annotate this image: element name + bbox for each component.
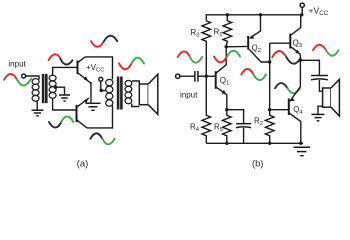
node Q1 emitter (b) <box>225 108 228 111</box>
node rail Q4 (b) <box>299 142 302 145</box>
wire output to C3 <box>300 60 319 75</box>
node Q2 collector / bias bus (b) <box>268 60 271 63</box>
wire emitters junction to ground (a) <box>90 82 92 103</box>
svg-text:input: input <box>180 91 198 100</box>
speaker (a) <box>139 74 158 114</box>
wire bottom rail (a) <box>87 106 113 128</box>
input terminal (a) <box>22 74 26 78</box>
ground emitters (a) <box>86 103 101 110</box>
transformer T2 core <box>117 77 123 110</box>
resistor R1 <box>223 15 232 47</box>
svg-text:(b): (b) <box>252 158 263 168</box>
waveform at Q4 base (b) <box>275 83 300 93</box>
node T2 center tap <box>100 89 103 92</box>
wire top rail (a) <box>85 57 113 80</box>
resistor R4 <box>202 76 211 143</box>
node rail R1 (b) <box>226 13 229 16</box>
bias bus vertical (b) <box>269 43 271 110</box>
node rail R2 (b) <box>268 142 271 145</box>
node output (b) <box>299 59 302 62</box>
wire C1 to base node (b) <box>198 75 206 77</box>
transformer T1 primary coil <box>32 79 39 102</box>
ground T1 center tap (a) <box>59 95 70 101</box>
+VCC terminal (b) <box>300 3 304 15</box>
wire Q1 collector to Q2 base <box>226 45 248 47</box>
resistor R3 <box>202 21 211 76</box>
waveform at driver bus (b) <box>272 51 300 64</box>
svg-text:input: input <box>8 60 26 69</box>
wire T1 secondary bottom to Q-bot base <box>53 98 77 110</box>
wire bus to Q4 base <box>270 109 289 111</box>
waveform black-green at Q-bot base (a) <box>49 116 73 127</box>
bottom rail (b) <box>206 142 303 144</box>
wire input to C1 (b) <box>180 75 195 77</box>
wire C3 to speaker (b) <box>319 80 322 91</box>
transistor Q-top (a) <box>78 57 92 84</box>
waveform red-black top rail (a) <box>91 36 117 47</box>
waveform at Q2 collector (b) <box>241 69 266 80</box>
+VCC terminal (a) <box>99 77 103 81</box>
wire speaker to ground (b) <box>318 106 323 114</box>
waveform red-black at Q-top base (a) <box>49 54 73 64</box>
transistor Q-bot (a) <box>77 98 89 128</box>
ground main (b) <box>294 147 311 155</box>
wire input to T1 primary <box>26 76 39 80</box>
node rail Q2 emitter (b) <box>259 13 262 16</box>
wire T2 secondary bottom to speaker <box>132 104 140 107</box>
node R2 top (b) <box>268 108 271 111</box>
node Q1 collector (b) <box>225 45 228 48</box>
T1 center tap node <box>54 86 65 95</box>
transistor Q4 <box>289 60 301 143</box>
transformer T1 secondary coil <box>49 75 56 98</box>
waveform at Q1 collector (b) <box>214 51 240 63</box>
transistor Q1 <box>206 47 227 110</box>
wire T1 secondary top to Q-top base <box>53 67 78 75</box>
node rail VCC (b) <box>300 13 303 16</box>
ground T1 primary (a) <box>32 110 44 116</box>
input source waveform (a) <box>4 74 31 86</box>
waveform black-green bottom rail (a) <box>90 133 114 144</box>
transformer T1 core <box>42 74 48 103</box>
capacitor C1 (input coupling) <box>195 71 198 82</box>
wire Q1 emitter to C2 <box>227 110 244 124</box>
input waveform (b) <box>178 51 202 62</box>
transistor Q2 <box>248 15 270 62</box>
resistor R5 <box>223 110 232 144</box>
output waveform (b) <box>313 45 339 56</box>
transformer T2 primary coil <box>106 79 113 106</box>
capacitor C2 (emitter bypass) <box>236 124 251 128</box>
node Q1 base (b) <box>205 75 208 78</box>
top rail (b) <box>206 15 300 21</box>
input terminal (b) <box>176 74 180 78</box>
speaker (b) <box>323 79 340 116</box>
node rail R5 (b) <box>225 142 228 145</box>
wire T1 primary to ground <box>36 101 38 110</box>
ground speaker (b) <box>312 114 325 120</box>
capacitor C3 (output coupling) <box>311 76 328 80</box>
wire C2 to bottom rail <box>243 128 245 144</box>
wire bus to Q3 base <box>270 42 291 44</box>
transistor Q3 <box>290 15 300 61</box>
svg-text:(a): (a) <box>77 158 88 168</box>
resistor R2 <box>265 110 274 143</box>
wire VCC to T2 center tap <box>101 81 106 90</box>
wire T2 secondary top to speaker <box>132 81 140 84</box>
waveform output (a) <box>119 58 144 70</box>
transformer T2 secondary coil <box>125 81 132 104</box>
